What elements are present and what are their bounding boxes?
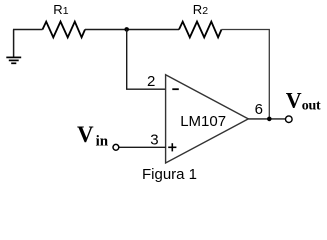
svg-text:out: out	[302, 99, 321, 114]
terminal circle V_in	[113, 144, 119, 150]
op-amp U1 LM107	[166, 75, 249, 163]
plus sign pin 3	[168, 143, 176, 151]
svg-text:LM107: LM107	[180, 113, 226, 130]
ground	[6, 30, 21, 64]
svg-text:3: 3	[150, 131, 158, 148]
resistor R1	[43, 22, 86, 38]
node output junction	[267, 117, 272, 122]
resistor R2	[179, 22, 222, 38]
terminal circle V_out	[286, 116, 293, 123]
minus sign pin 2	[172, 88, 179, 90]
wire V_in to pin 3	[119, 146, 166, 148]
wire R1 to R2 through node	[85, 29, 179, 31]
svg-text:in: in	[96, 134, 109, 150]
wire ground to R1	[13, 29, 43, 31]
svg-text:V: V	[77, 122, 94, 147]
svg-text:V: V	[286, 88, 302, 113]
wire R2 to output corner	[222, 30, 270, 119]
svg-text:Figura 1: Figura 1	[142, 166, 197, 183]
svg-text:R2: R2	[193, 2, 208, 17]
svg-text:2: 2	[147, 73, 155, 90]
wire op-amp output	[248, 118, 285, 120]
node junction inverting input	[124, 27, 129, 32]
wire node down to pin 2	[127, 29, 166, 89]
svg-text:6: 6	[255, 101, 263, 118]
svg-text:R1: R1	[53, 2, 68, 17]
